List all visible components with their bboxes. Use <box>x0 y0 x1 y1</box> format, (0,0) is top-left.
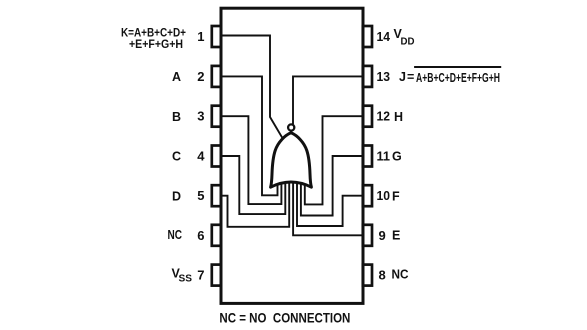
svg-text:A+B+C+D+E+F+G+H: A+B+C+D+E+F+G+H <box>416 71 500 85</box>
svg-text:4: 4 <box>197 149 205 164</box>
svg-text:SS: SS <box>179 274 193 285</box>
svg-text:NC: NC <box>392 268 409 282</box>
svg-text:11: 11 <box>377 149 391 164</box>
svg-text:12: 12 <box>377 109 391 124</box>
svg-text:=: = <box>407 70 414 84</box>
svg-text:NC: NC <box>168 228 183 242</box>
svg-text:+E+F+G+H: +E+F+G+H <box>129 37 183 51</box>
svg-text:13: 13 <box>377 69 391 84</box>
svg-text:2: 2 <box>197 69 204 84</box>
svg-text:8: 8 <box>379 268 386 283</box>
svg-text:J: J <box>399 70 406 84</box>
svg-text:B: B <box>172 110 181 124</box>
svg-text:G: G <box>392 150 402 164</box>
svg-text:7: 7 <box>197 268 204 283</box>
svg-text:DD: DD <box>401 36 415 47</box>
svg-text:14: 14 <box>377 29 391 44</box>
svg-text:3: 3 <box>197 109 204 124</box>
svg-text:A: A <box>172 70 181 84</box>
svg-text:NC = NO CONNECTION: NC = NO CONNECTION <box>219 310 350 326</box>
svg-text:F: F <box>392 189 400 203</box>
svg-text:C: C <box>172 150 181 164</box>
svg-text:6: 6 <box>197 228 204 243</box>
svg-text:10: 10 <box>377 188 391 203</box>
svg-text:9: 9 <box>379 228 386 243</box>
svg-text:E: E <box>392 229 400 243</box>
svg-text:5: 5 <box>197 188 204 203</box>
svg-text:H: H <box>394 110 403 124</box>
svg-text:1: 1 <box>197 29 204 44</box>
svg-text:D: D <box>172 189 181 203</box>
